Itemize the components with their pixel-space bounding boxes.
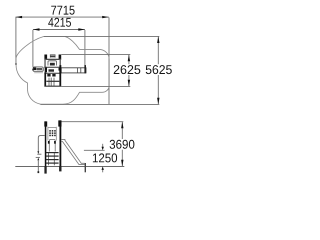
extension line top for 5625 (safety zone top edge extended): [44, 35, 159, 37]
ladder rung band: [46, 81, 59, 82]
extension dot at attachment: [32, 69, 34, 71]
tower bottom edge: [44, 85, 61, 87]
dimension 3690 line: [121, 122, 123, 166]
dimension 1250 label: [93, 153, 117, 162]
ladder rails (elevation): [48, 152, 54, 165]
tower top edge: [44, 58, 61, 60]
extension line left of 7715: [15, 18, 17, 65]
upper side walls (gray): [44, 59, 46, 67]
slide (plan view): [59, 65, 86, 73]
left attachment (plan view): [33, 67, 43, 73]
tower right post (elevation): [58, 120, 61, 171]
ground line: [15, 165, 124, 167]
dimension 4215 line: [33, 29, 85, 31]
dimension 2625 label: [113, 64, 141, 75]
dimension 7715 line: [16, 16, 109, 18]
dimension 5625 line: [157, 37, 159, 105]
panel dot grid: [49, 130, 55, 136]
dimension 3690 arrows: [121, 122, 123, 167]
slide (elevation): [62, 139, 85, 164]
ladder rungs (elevation): [46, 153, 59, 164]
extension line bottom for 5625 (safety zone bottom extended): [41, 103, 160, 105]
extension line for 1250 (level): [84, 149, 105, 151]
slide end support: [85, 163, 86, 172]
top protrusion posts: [44, 55, 47, 59]
dimension 5625 arrows: [157, 36, 159, 104]
mid divider: [44, 66, 61, 68]
extension line top for 2625 (equipment top extended): [61, 54, 130, 56]
dimension 7715 arrows: [16, 16, 109, 18]
safety zone outline (plan view): [16, 36, 109, 104]
extension line left of 4215: [32, 30, 34, 67]
tower left post (elevation): [44, 121, 47, 173]
crawl door: [49, 140, 55, 152]
dimension 4215 label: [48, 18, 71, 27]
dimension 1250 lower arrow (outside, pointing up): [102, 166, 104, 172]
slide start cap (tower wall): [59, 65, 61, 73]
extension line right of 7715 (safety zone right edge): [108, 18, 110, 105]
mid posts: [45, 68, 47, 73]
extension line top for 3690 (tower top): [62, 121, 124, 123]
dividers: [76, 68, 78, 73]
tower (plan view): [44, 55, 61, 87]
lower dots: [47, 74, 50, 77]
dimension 3690 label: [109, 139, 136, 150]
fireman pole (elevation): [36, 136, 45, 172]
dimension 7715 label: [51, 6, 74, 15]
lower cell side walls: [44, 72, 46, 86]
extension line right of 4215: [84, 30, 86, 66]
dimension 5625 label: [145, 64, 173, 75]
ladder rails: [49, 78, 54, 86]
dimension 2625 line: [128, 55, 130, 86]
second divider with center blob: [49, 69, 55, 71]
climbing panel (elevation): [48, 127, 56, 141]
entry appendage: [50, 55, 55, 58]
slide end cap: [84, 65, 86, 73]
dimension 4215 arrows: [33, 28, 85, 30]
extension dot at left outline: [15, 63, 17, 65]
extension line bottom for 2625 (equipment bottom extended): [61, 85, 130, 87]
slide seat (U detail): [48, 61, 57, 66]
dimension 1250 upper arrow (outside, pointing down): [102, 144, 104, 151]
dimension 2625 arrows: [128, 55, 130, 87]
